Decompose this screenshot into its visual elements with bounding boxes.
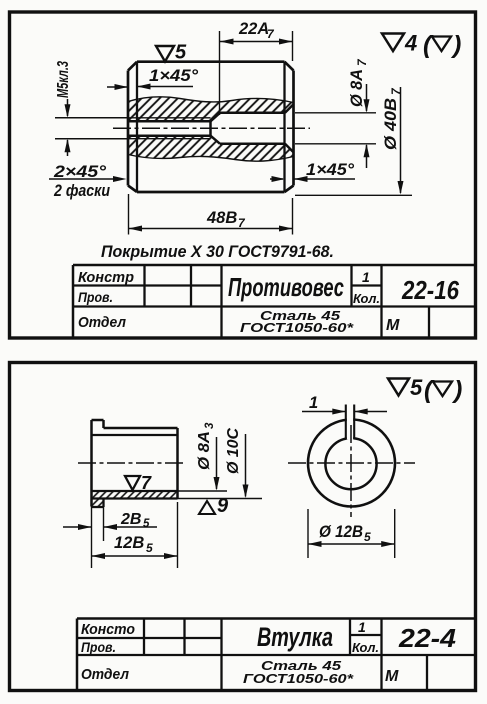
- svg-text:1: 1: [358, 619, 366, 635]
- drawing 2 border frame: [10, 363, 476, 691]
- collar section: [92, 499, 104, 508]
- svg-text:5: 5: [364, 530, 371, 544]
- hole chamfer diagonals: [285, 104, 294, 152]
- svg-text:ГОСТ1050-60*: ГОСТ1050-60*: [243, 672, 354, 686]
- section strip hatch: [92, 491, 178, 499]
- svg-text:22-16: 22-16: [401, 275, 459, 305]
- svg-text:М5кл.3: М5кл.3: [55, 61, 72, 98]
- svg-text:2В: 2В: [120, 511, 141, 528]
- svg-text:Покрытие Х 30 ГОСТ9791-68.: Покрытие Х 30 ГОСТ9791-68.: [101, 242, 334, 261]
- svg-text:1: 1: [362, 269, 370, 285]
- svg-text:5: 5: [146, 541, 153, 555]
- bushing axis centerline: [78, 462, 184, 464]
- svg-text:1×45°: 1×45°: [306, 161, 354, 179]
- svg-text:5: 5: [410, 375, 423, 400]
- svg-text:Ø 40В: Ø 40В: [382, 98, 400, 150]
- svg-text:Пров.: Пров.: [78, 289, 113, 305]
- svg-text:Кол.: Кол.: [352, 640, 379, 655]
- bushing end view bore circle: [325, 438, 376, 489]
- svg-text:5: 5: [175, 42, 187, 64]
- slit edges: [345, 405, 347, 440]
- dimension D12V5: [307, 509, 309, 558]
- svg-text:5: 5: [143, 518, 150, 530]
- svg-text:Отдел: Отдел: [81, 667, 129, 683]
- slit gap: [347, 415, 353, 440]
- svg-text:ГОСТ1050-60*: ГОСТ1050-60*: [240, 321, 355, 335]
- svg-text:М: М: [385, 668, 399, 685]
- svg-text:7: 7: [141, 473, 152, 493]
- overall finish mark V5: [388, 379, 409, 396]
- counterbore D8 walls: [220, 113, 285, 144]
- svg-text:2 фаски: 2 фаски: [53, 182, 110, 200]
- svg-text:48В: 48В: [206, 209, 237, 227]
- drawing 1 border frame: [10, 12, 476, 338]
- svg-text:Ø 8А: Ø 8А: [348, 69, 366, 107]
- hatch bottom band: [128, 136, 294, 161]
- svg-text:Консто: Консто: [81, 622, 135, 638]
- svg-text:4: 4: [404, 31, 417, 56]
- bushing side view: [92, 420, 178, 507]
- cone transition: [211, 113, 221, 144]
- centerline axis: [113, 127, 310, 129]
- svg-text:22А: 22А: [238, 20, 269, 38]
- counterweight body outline: [128, 62, 294, 192]
- svg-text:22-4: 22-4: [398, 623, 457, 653]
- wavy break line bottom: [128, 155, 294, 162]
- svg-text:Втулка: Втулка: [257, 622, 333, 652]
- svg-text:Ø 12В: Ø 12В: [319, 523, 363, 541]
- machining mark triangle 9: [199, 501, 215, 514]
- svg-text:Отдел: Отдел: [78, 315, 126, 331]
- title block 2: [77, 619, 476, 691]
- extension lines right: [178, 490, 228, 492]
- end view centerlines: [288, 462, 415, 464]
- svg-text:Сталь 45: Сталь 45: [261, 658, 342, 673]
- threaded hole M5 walls: [128, 121, 211, 135]
- chamfer projection lines: [137, 62, 285, 192]
- svg-text:1×45°: 1×45°: [149, 67, 198, 85]
- svg-text:Ø 10С: Ø 10С: [225, 428, 242, 474]
- title block 1: [73, 265, 476, 338]
- bushing end view outer circle: [308, 420, 395, 507]
- overall finish mark V4: [382, 34, 404, 52]
- wavy break line top: [128, 97, 294, 103]
- svg-text:Пров.: Пров.: [81, 639, 116, 655]
- svg-text:Констр: Констр: [78, 270, 134, 286]
- svg-text:Противовес: Противовес: [228, 272, 344, 302]
- dimension 2V5: [63, 526, 92, 528]
- svg-text:Ø 8А: Ø 8А: [196, 431, 213, 470]
- finish mark V7: [125, 476, 140, 490]
- svg-text:Кол.: Кол.: [353, 291, 380, 306]
- svg-text:1: 1: [309, 394, 318, 412]
- hatch top band: [128, 97, 294, 121]
- svg-text:9: 9: [217, 495, 229, 517]
- svg-text:3: 3: [204, 422, 216, 429]
- thread major diameter thin lines: [128, 118, 211, 139]
- svg-text:М: М: [386, 317, 400, 334]
- svg-text:12В: 12В: [114, 534, 144, 552]
- finish mark V5: [156, 46, 174, 62]
